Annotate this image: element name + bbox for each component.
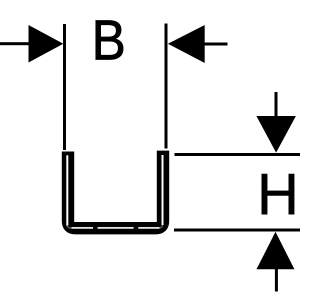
arrowhead left (B): [29, 25, 64, 63]
U-profile centerline corner arc left (faint): [67, 226, 71, 229]
extension line left (B): [63, 24, 66, 150]
U-profile centerline bottom dash 1 (white): [72, 227, 94, 229]
extension line top (H): [175, 153, 301, 156]
U-profile centerline right wall (white): [162, 155, 164, 225]
dimension tail bottom (H): [275, 269, 278, 292]
extension line right (B): [165, 24, 168, 149]
arrowhead top (H): [256, 116, 296, 153]
arrowhead bottom (H): [257, 232, 295, 269]
U-profile centerline corner arc right (faint): [158, 225, 162, 228]
svg-text:H: H: [257, 162, 299, 227]
dimension tail right (B): [204, 43, 228, 46]
U-profile centerline left wall (white): [66, 155, 68, 225]
U-profile centerline bottom dash 3 (white): [138, 227, 159, 229]
U-profile centerline bottom dash 2 (white): [98, 227, 134, 229]
U-profile outline: [68, 151, 163, 229]
dimension tail top (H): [275, 92, 278, 117]
extension line bottom (H): [174, 229, 300, 232]
dimension tail left (B): [0, 42, 29, 45]
svg-text:B: B: [92, 9, 126, 72]
arrowhead right (B): [168, 25, 205, 63]
